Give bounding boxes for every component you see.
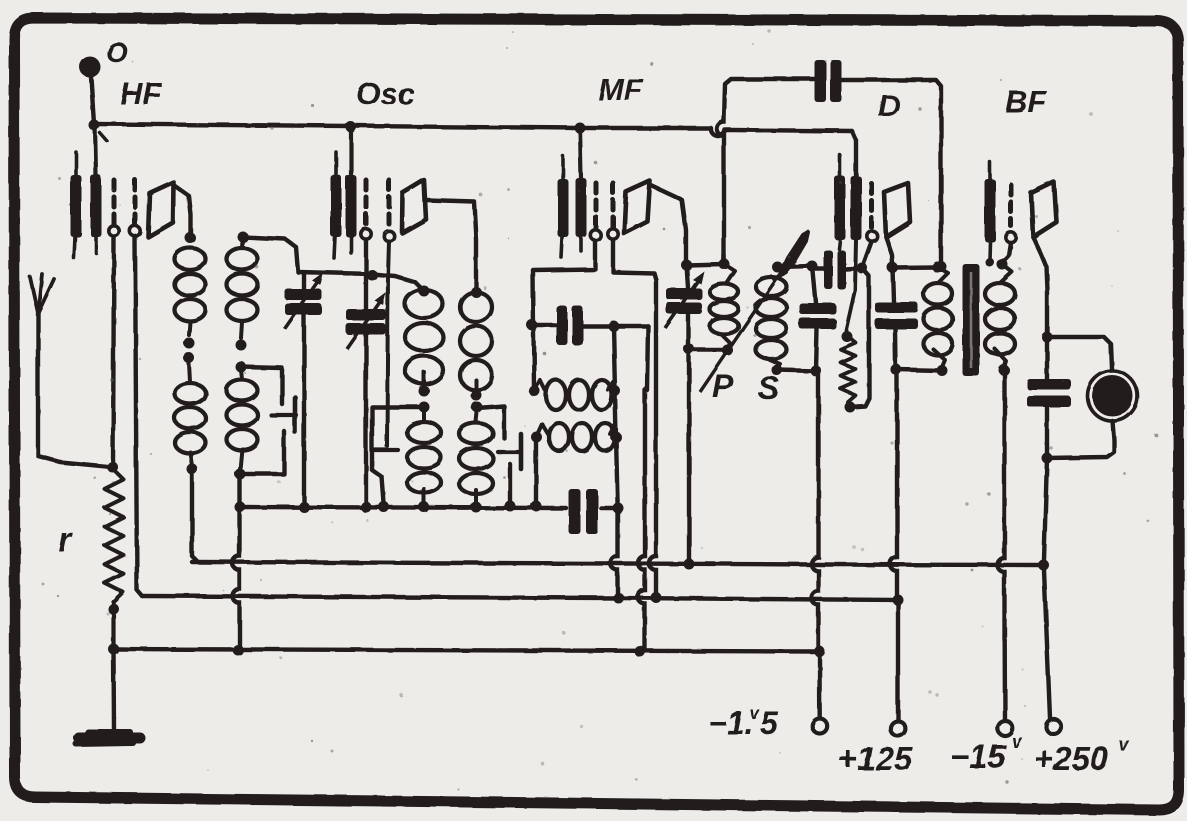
coil L2 (aerial secondary) — [227, 232, 258, 480]
label +250 — [1034, 734, 1129, 777]
wire speaker top — [1047, 337, 1112, 369]
label O — [106, 37, 128, 68]
wire MF right vertical — [611, 326, 625, 604]
capacitor C6 (S tuning) — [799, 303, 836, 329]
svg-text:BF: BF — [1005, 84, 1047, 119]
terminal -1.5 — [812, 719, 827, 734]
tube V3 (MF) filament bar A — [558, 156, 569, 257]
svg-text:+250: +250 — [1034, 740, 1109, 777]
wire V5 plate down — [1033, 237, 1053, 343]
tube V4 (D) filament bar B — [851, 176, 862, 290]
capacitor C7 (feedback) — [815, 60, 842, 102]
wire V4 plate down — [886, 237, 898, 302]
wire grid2 down to bus 597 — [135, 237, 142, 596]
wire C4 link — [527, 320, 649, 332]
tube V1 (HF) grid 1 — [109, 180, 119, 236]
variable capacitor CV2 — [346, 241, 386, 513]
tube V2 (Osc) grid 1 — [361, 180, 371, 239]
label -1.5 — [708, 703, 779, 741]
capacitor C5 — [569, 489, 599, 534]
label D — [878, 88, 900, 123]
wire V2 plate to L4 — [426, 200, 482, 298]
wire -15 line — [998, 371, 1006, 721]
wire V5 grid to S2 — [1003, 243, 1012, 263]
variable capacitor CV3 — [665, 265, 704, 355]
tube V4 (D) plate — [884, 183, 910, 237]
label Osc — [356, 76, 415, 111]
label BF — [1005, 84, 1047, 119]
terminal +125 — [890, 721, 905, 736]
svg-text:P: P — [712, 368, 734, 404]
coil T1 secondary — [985, 259, 1015, 376]
svg-text:v: v — [1118, 734, 1129, 754]
label S — [758, 370, 780, 406]
tube V5 (BF) grid — [1006, 185, 1016, 243]
label HF — [120, 76, 162, 111]
coil L5 (IF upper) — [529, 380, 621, 410]
svg-text:MF: MF — [598, 72, 644, 107]
wire grid1 down — [107, 237, 118, 473]
capacitor C9 (plate bypass) — [875, 302, 918, 329]
wire S cap vertical — [813, 266, 818, 371]
svg-text:S: S — [758, 370, 780, 406]
svg-text:Osc: Osc — [356, 76, 415, 111]
tube V1 (HF) plate — [148, 182, 174, 237]
bus wire y597 — [142, 596, 898, 600]
condenser C3 (old style) — [477, 406, 521, 512]
tube V1 (HF) filament bar A — [71, 152, 82, 258]
terminal +250 — [1046, 719, 1061, 734]
wire plate node to P2 — [893, 262, 944, 273]
wire speaker node — [1042, 337, 1053, 464]
coil L8 (S) — [756, 262, 787, 376]
label MF — [598, 72, 644, 107]
wire C9 down — [891, 329, 902, 375]
wire -1.5 line — [812, 371, 826, 718]
bus wire y563 — [192, 562, 1044, 565]
terminal O (aerial post) — [80, 57, 101, 125]
wire bus to V4 — [852, 131, 856, 176]
tube V5 (BF) plate — [1031, 182, 1057, 237]
resistor r — [105, 470, 124, 655]
tube V1 (HF) filament bar B — [91, 125, 102, 253]
svg-text:v: v — [1012, 732, 1023, 752]
label -15 — [950, 732, 1023, 775]
tube V4 (D) filament bar A — [835, 155, 846, 249]
svg-text:HF: HF — [120, 76, 162, 111]
tube V1 (HF) grid 2 — [130, 180, 140, 236]
wire P2 bottom link — [896, 370, 942, 371]
variable capacitor CV1 — [285, 272, 324, 513]
wire L5 left up — [533, 241, 595, 391]
wire L6 left down — [534, 437, 538, 503]
wire feedback left — [717, 79, 814, 264]
coil L3 (osc grid coil) — [405, 290, 443, 513]
wire r to ground — [111, 649, 116, 731]
svg-text:5: 5 — [760, 705, 779, 741]
transformer core — [963, 264, 980, 376]
wire x688 down — [684, 350, 695, 570]
svg-text:v: v — [749, 703, 760, 722]
svg-text:r: r — [58, 521, 73, 559]
stray tick — [100, 133, 107, 141]
speaker — [1088, 371, 1138, 421]
wire speaker bottom — [1047, 421, 1114, 458]
terminal -15 — [998, 721, 1013, 736]
grid leak R2 — [841, 268, 870, 413]
tube V3 (MF) plate — [624, 181, 650, 234]
coil L1 (aerial primary) — [175, 248, 206, 475]
wire x640 down — [635, 326, 649, 657]
wire V3 plate to tank — [650, 185, 692, 271]
tube V5 (BF) filament bar — [985, 162, 996, 267]
tube V2 (Osc) filament bar B — [346, 127, 357, 253]
tube V3 (MF) filament bar B — [576, 128, 587, 251]
tube V3 (MF) grid 1 — [590, 183, 600, 240]
top bus wire — [89, 120, 853, 137]
coil L6 (IF lower) — [531, 423, 622, 451]
wire tank top link — [687, 259, 730, 270]
wire +250 line — [1038, 458, 1050, 718]
ground — [76, 732, 140, 744]
coil L7 (P) — [710, 264, 739, 350]
coil T1 primary — [924, 267, 953, 376]
wire S top link — [778, 261, 819, 272]
wire +125 line — [890, 364, 904, 721]
label +125 — [838, 740, 913, 777]
coil L4 (osc plate coil) — [459, 292, 493, 513]
capacitor C4 — [557, 306, 584, 345]
svg-text:−15: −15 — [950, 738, 1007, 775]
tube V3 (MF) grid 2 — [608, 183, 618, 239]
wire grid cap link — [813, 243, 872, 274]
grid condenser C2 (old style) — [372, 241, 424, 513]
tube V2 (Osc) filament bar A — [331, 152, 342, 258]
wire feedback right — [842, 80, 947, 272]
label r — [58, 521, 73, 559]
tube V4 (D) grid — [867, 183, 877, 241]
svg-text:−1.: −1. — [708, 705, 753, 741]
wire tank bottom link — [689, 345, 733, 356]
capacitor C8 (grid) — [824, 250, 846, 289]
wire MF grid2 route — [613, 240, 662, 603]
tube V2 (Osc) grid 2 — [384, 180, 394, 241]
bus wire y507 — [240, 501, 624, 514]
wire V1 plate to L1 — [174, 185, 197, 244]
bus wire y651 — [114, 649, 820, 652]
coupling arrow P-S — [700, 232, 808, 392]
svg-text:+125: +125 — [838, 740, 913, 777]
wire L1 bottom to bus 563 — [192, 469, 198, 562]
capacitor C10 — [1027, 379, 1071, 407]
tuning rail — [243, 237, 430, 297]
tube V2 (Osc) plate — [402, 180, 426, 233]
grid condenser C1 (old style) — [240, 367, 296, 474]
svg-text:D: D — [878, 88, 900, 123]
svg-text:O: O — [106, 37, 128, 68]
antenna — [30, 274, 112, 467]
label P — [712, 368, 734, 404]
wire S bottom link — [777, 366, 822, 377]
wire L2 bottom vertical — [233, 474, 246, 656]
